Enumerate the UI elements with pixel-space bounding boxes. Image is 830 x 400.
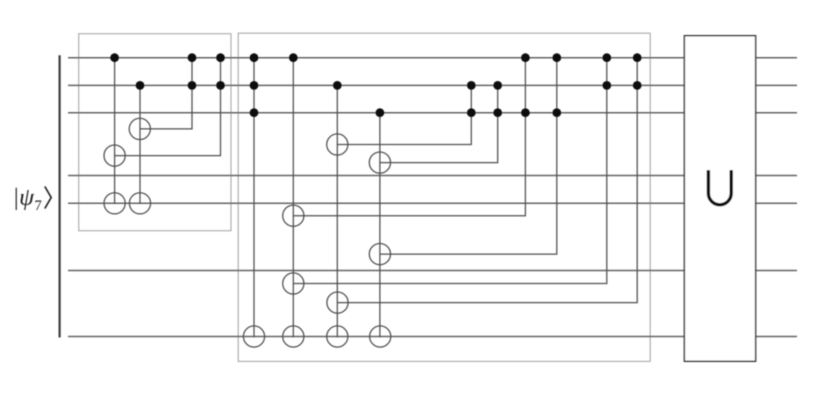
- gate G1: CNOT control q1 -> target q5: [104, 58, 125, 214]
- gate G3: controls q1,q2 -> target stub: [129, 58, 192, 140]
- gate G1 control dot: [110, 53, 119, 62]
- gate G2: CNOT control q2 -> target q5: [129, 85, 150, 214]
- ket label |psi7>: [13, 185, 52, 214]
- svg-text:7: 7: [35, 198, 42, 214]
- gate G3 control dots: [188, 53, 197, 62]
- gate G4: controls q1,q2 -> target stub: [104, 58, 221, 167]
- svg-text:|ψ: |ψ: [13, 185, 36, 211]
- subcircuit box B1: [79, 34, 231, 231]
- gate G14: controls q1,q2 -> target stub: [327, 58, 637, 314]
- gate G10 control dots: [493, 81, 502, 90]
- gate G8: control q3 -> target q7: [370, 113, 391, 347]
- gate G6: control q1 -> target q7: [283, 58, 304, 347]
- gate G7: control q2 -> target q7: [327, 85, 348, 347]
- wire q1: [68, 57, 797, 59]
- left bracket bar: [58, 55, 60, 337]
- gate G12: controls q1,q3 -> target stub: [369, 58, 557, 265]
- gate U glyph: [708, 170, 731, 205]
- gate G9 control dots: [467, 81, 476, 90]
- wire q4: [68, 175, 797, 177]
- wire q3: [68, 112, 797, 114]
- gate G14 control dots: [633, 53, 642, 62]
- subcircuit box B2: [238, 33, 650, 361]
- gate G11 control dots: [521, 53, 530, 62]
- gate G11: controls q1,q3 -> target stub: [283, 58, 526, 227]
- gate G7 control dot: [333, 81, 342, 90]
- gate G12 control dots: [552, 53, 561, 62]
- gate G5: controls q1,q2,q3 -> target q7: [243, 58, 264, 347]
- gate G13 control dots: [602, 53, 611, 62]
- gate G13: controls q1,q2 -> target stub: [283, 58, 607, 294]
- gate G5 control dots: [250, 53, 259, 62]
- gate G8 control dot: [376, 108, 385, 117]
- wire q5: [68, 202, 797, 204]
- wire q6: [68, 270, 797, 272]
- gate G2 control dot: [136, 81, 145, 90]
- gate G10: controls q2,q3 -> target stub: [369, 85, 497, 173]
- gate G6 control dot: [289, 53, 298, 62]
- unitary gate box U: [684, 36, 755, 362]
- gate G9: controls q2,q3 -> target stub: [327, 85, 472, 155]
- gate G4 control dots: [216, 53, 225, 62]
- wire q2: [68, 84, 797, 86]
- wire q7: [68, 336, 797, 338]
